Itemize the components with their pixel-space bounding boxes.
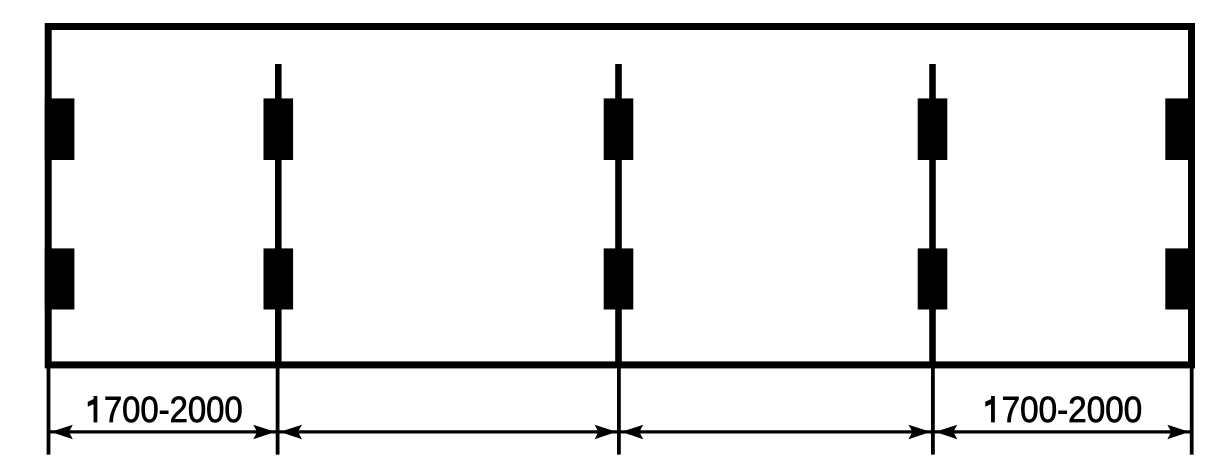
arrowhead D4 right (points right at E4) — [1167, 425, 1189, 439]
dimension line D2 (E1 to E2) — [278, 430, 619, 433]
dimension line D4 (E3 to E4) — [933, 430, 1192, 433]
dimension label "1700-2000" left — [88, 396, 241, 422]
dimension label "1700-2000" right — [986, 396, 1141, 422]
extension line E4 (right edge) — [1190, 366, 1194, 455]
post P2 line — [615, 64, 622, 365]
dimension line D1 (E0 to E1) — [49, 430, 278, 433]
post P1 line — [275, 64, 282, 365]
left post bottom clamp pad — [45, 248, 75, 309]
dimension line D3 (E2 to E3) — [619, 430, 933, 433]
extension line E0 (left edge) — [47, 366, 51, 455]
fence frame (outer rectangle rails) — [48, 27, 1191, 365]
arrowhead D2 left (points left at E1) — [280, 425, 302, 439]
P1 bottom clamp pad — [264, 248, 294, 309]
extension line E1 (post P1) — [276, 366, 280, 455]
left post top clamp pad — [45, 98, 75, 160]
right post bottom clamp pad — [1165, 248, 1195, 309]
P3 top clamp pad — [918, 98, 948, 160]
arrowhead D2 right (points right at E2) — [595, 425, 617, 439]
P1 top clamp pad — [264, 98, 294, 160]
arrowhead D3 left (points left at E2) — [621, 425, 643, 439]
extension line E2 (post P2) — [617, 366, 621, 455]
arrowhead D1 right (points right at E1) — [253, 425, 275, 439]
P3 bottom clamp pad — [918, 248, 948, 309]
right post top clamp pad — [1165, 98, 1195, 160]
arrowhead D1 left (points left at E0) — [51, 425, 73, 439]
P2 top clamp pad — [604, 98, 634, 160]
P2 bottom clamp pad — [604, 248, 634, 309]
post P3 line — [929, 64, 936, 365]
arrowhead D3 right (points right at E3) — [909, 425, 931, 439]
arrowhead D4 left (points left at E3) — [935, 425, 957, 439]
extension line E3 (post P3) — [931, 366, 935, 455]
